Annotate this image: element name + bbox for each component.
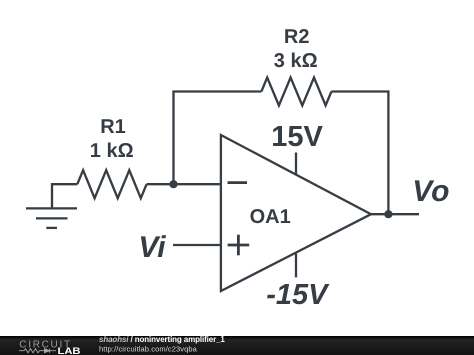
svg-text:R1: R1 xyxy=(100,116,126,138)
svg-text:-15V: -15V xyxy=(266,279,330,311)
svg-text:Vo: Vo xyxy=(412,175,449,208)
svg-text:15V: 15V xyxy=(271,121,323,153)
svg-text:3 kΩ: 3 kΩ xyxy=(274,50,318,72)
svg-text:shaohsi / noninverting amplifi: shaohsi / noninverting amplifier_1 xyxy=(99,336,225,344)
svg-text:Vi: Vi xyxy=(138,231,166,264)
svg-text:1 kΩ: 1 kΩ xyxy=(90,140,134,162)
svg-text:LAB: LAB xyxy=(58,346,81,355)
svg-text:OA1: OA1 xyxy=(250,206,291,228)
svg-text:R2: R2 xyxy=(284,26,310,48)
svg-text:http://circuitlab.com/c23vqba: http://circuitlab.com/c23vqba xyxy=(99,345,198,354)
